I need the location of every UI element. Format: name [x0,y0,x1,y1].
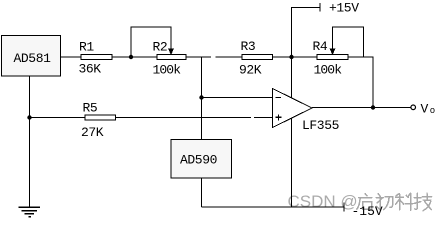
wire R4 wiper loop [333,27,364,57]
plus input symbol [276,114,282,120]
resistor R3 [242,55,273,60]
ground [19,207,41,217]
node junction +15V bus [289,55,293,59]
svg-text:27K: 27K [81,125,104,140]
wire +15V bus to op-amp V+ [291,57,293,98]
svg-text:R3: R3 [241,39,256,54]
wire -15V rail [202,203,345,212]
watermark CJK 启初科技 [357,193,432,210]
potentiometer R4 [317,55,348,60]
wire R1 to R2 [112,56,157,58]
resistor R1 [81,55,112,60]
svg-text:V: V [421,102,429,117]
node junction at inverting input [199,95,203,99]
svg-text:R1: R1 [79,40,94,55]
svg-text:-15V: -15V [352,204,383,219]
node junction output [371,105,375,109]
wire R5 row [30,117,86,119]
wire AD581 output [61,56,82,58]
svg-text:+15V: +15V [329,1,359,16]
wire AD581 bottom pin to ground [29,76,31,207]
wiper arrow R4 [330,49,336,56]
svg-text:100k: 100k [153,63,182,78]
svg-text:o: o [430,106,435,116]
wire R2 wiper loop [131,27,171,57]
wire to inverting input [202,97,273,99]
op-amp U1 LF355 [273,89,313,128]
svg-text:92K: 92K [239,63,262,78]
wire R2 to R3 [186,56,242,58]
svg-text:LF355: LF355 [302,118,339,133]
svg-text:R5: R5 [83,101,98,116]
wire R4 to output node [348,57,373,108]
svg-text:CSDN @: CSDN @ [288,192,358,211]
wire op-amp output [312,107,411,109]
svg-text:AD590: AD590 [180,153,217,168]
minus input symbol [276,97,282,99]
resistor R5 [85,115,116,120]
wire op-amp V- to rail [291,118,293,207]
svg-text:100k: 100k [314,63,343,78]
potentiometer R2 [157,55,186,60]
wire +15V bus upper [292,3,321,57]
svg-text:R4: R4 [313,39,328,54]
box U2 AD581 [2,36,61,77]
svg-text:AD581: AD581 [14,51,52,66]
wire R3 to R4 [273,56,318,58]
svg-text:36K: 36K [79,62,102,77]
box U3 AD590 [171,140,232,179]
wiper arrow R2 [168,49,174,56]
wire R5 to non-inverting input [116,117,273,119]
wire down to AD590 / inverting input [201,57,203,140]
terminal Vo [411,105,416,110]
node junction R5 [27,115,31,119]
node junction R1-R2 [129,55,133,59]
svg-text:R2: R2 [153,40,168,55]
wire AD590 bottom to -15V rail [201,178,203,207]
